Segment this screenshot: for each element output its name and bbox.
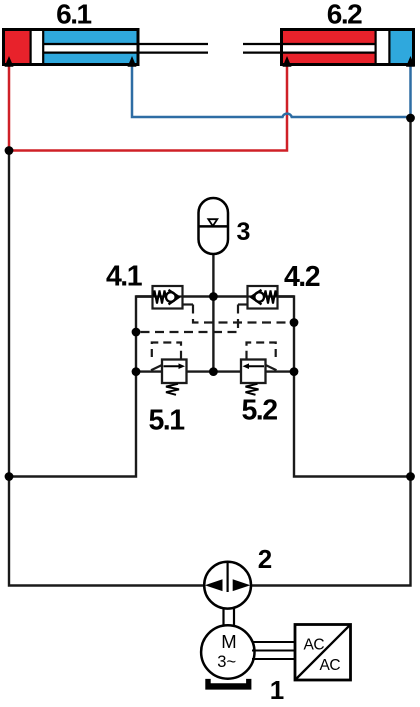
svg-text:6.2: 6.2 <box>327 0 362 29</box>
wire: blue hose from cylinder 6.1 rod port to node D (with hop over red at x=287) <box>132 65 411 117</box>
label 1 <box>270 675 284 705</box>
pump 2 <box>204 562 251 609</box>
svg-text:6.1: 6.1 <box>56 0 91 29</box>
svg-text:AC: AC <box>320 657 341 674</box>
svg-text:5.1: 5.1 <box>148 405 185 437</box>
svg-text:AC: AC <box>304 637 325 654</box>
node: pilot B end on left manifold <box>132 328 141 337</box>
motor mount bracket <box>205 679 251 690</box>
node B: center top junction <box>209 292 218 301</box>
relief valve 5.2 <box>241 360 266 395</box>
check valve 4.2 <box>248 286 278 309</box>
pilot loop of relief valve 5.2 (dashed) <box>247 343 277 371</box>
wire: red hose from cylinder 6.1 cap port to node A and up to 6.2 rod port <box>9 65 287 151</box>
frequency converter 1 (AC/AC box) <box>295 625 351 681</box>
label 2 <box>258 544 272 574</box>
pilot line: dashed from check valve 4.1 outlet to right manifold <box>183 305 295 323</box>
node A: red/left-main junction <box>5 146 14 155</box>
cylinder 6.2 <box>243 29 414 65</box>
wire: accumulator stem / center line down to node B <box>212 253 214 372</box>
node C: center bottom junction <box>209 367 218 376</box>
wire: valve row horizontal line through 4.1 and 4.2 <box>136 295 294 297</box>
wire: left main black line (x=9, y150-585 and bottom to pump) <box>9 151 205 586</box>
node: 5.1 inlet on left manifold <box>132 367 141 376</box>
port arrow into 6.2 cap side <box>406 56 415 67</box>
shaft between pump 2 and motor M <box>224 608 235 626</box>
wire: right main black line (x=410.5 from blue node down and to pump) <box>251 118 411 586</box>
cylinder 6.1 <box>4 29 209 65</box>
wire: right manifold branch line (x=294) with bottom run to right main <box>278 297 411 477</box>
svg-text:2: 2 <box>258 544 272 574</box>
label 5.2 <box>241 395 277 427</box>
node D: blue/right-main junction <box>406 114 415 123</box>
svg-text:4.2: 4.2 <box>284 261 320 293</box>
three-phase wires motor to converter <box>252 642 295 659</box>
pilot loop of relief valve 5.1 (dashed) <box>151 343 181 371</box>
check valve 4.1 <box>153 286 183 309</box>
svg-text:3~: 3~ <box>217 653 236 671</box>
relief valve 5.1 <box>162 360 187 395</box>
label 6.1 <box>56 0 91 29</box>
svg-text:1: 1 <box>270 675 284 702</box>
label 4.2 <box>284 261 320 293</box>
svg-text:4.1: 4.1 <box>106 261 143 293</box>
wire: left manifold branch line (x=136) with bottom run to left main <box>9 297 153 477</box>
svg-text:M: M <box>221 631 236 652</box>
port arrow into 6.2 rod side <box>283 56 292 67</box>
svg-text:5.2: 5.2 <box>241 395 277 427</box>
label 6.2 <box>327 0 362 29</box>
port arrow into 6.1 rod side <box>128 56 137 67</box>
port arrow into 6.1 cap side <box>5 56 14 67</box>
accumulator 3 <box>199 198 229 254</box>
label 4.1 <box>106 261 143 293</box>
node: left manifold to left main <box>5 472 14 481</box>
motor M 3~ <box>201 625 254 678</box>
svg-text:3: 3 <box>237 218 251 246</box>
node: 5.2 outlet on right manifold <box>290 367 299 376</box>
wire: relief valve row horizontal line through 5.1 and 5.2 <box>136 370 294 372</box>
node: pilot A end on right manifold <box>290 318 299 327</box>
pilot line: dashed from check valve 4.2 outlet to left manifold <box>136 305 248 333</box>
label 3 <box>237 218 251 246</box>
label 5.1 <box>148 405 185 437</box>
node: right manifold to right main <box>406 472 415 481</box>
